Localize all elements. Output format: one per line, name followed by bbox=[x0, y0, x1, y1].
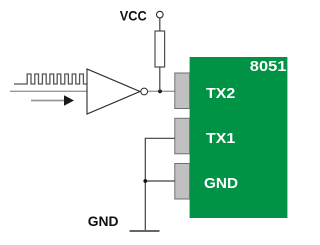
svg-text:8051: 8051 bbox=[250, 58, 287, 75]
wire resistor to junction bbox=[159, 67, 161, 91]
svg-text:GND: GND bbox=[88, 213, 119, 229]
node junction below resistor bbox=[158, 89, 162, 93]
svg-text:VCC: VCC bbox=[120, 8, 147, 24]
node junction on ground rail bbox=[143, 179, 147, 183]
svg-text:TX2: TX2 bbox=[206, 85, 235, 102]
svg-text:TX1: TX1 bbox=[206, 130, 235, 147]
inverter U1 bbox=[87, 69, 148, 114]
wire TX1 to ground rail bbox=[145, 138, 175, 230]
pulse-train input waveform bbox=[14, 74, 87, 84]
resistor R1 bbox=[155, 31, 165, 67]
pin TX1 bbox=[175, 118, 235, 154]
wire input signal line bbox=[10, 90, 87, 92]
wire GND pin to ground rail bbox=[145, 180, 175, 182]
wire inverter output to TX2 bbox=[148, 90, 175, 92]
signal-direction arrow bbox=[31, 95, 74, 105]
wire VCC terminal to resistor bbox=[159, 18, 161, 31]
pin TX2 bbox=[175, 73, 235, 109]
ground bbox=[130, 230, 160, 232]
pin GND bbox=[175, 164, 238, 200]
svg-text:GND: GND bbox=[204, 175, 238, 192]
VCC terminal bbox=[157, 11, 164, 18]
IC 8051 body bbox=[190, 57, 288, 218]
